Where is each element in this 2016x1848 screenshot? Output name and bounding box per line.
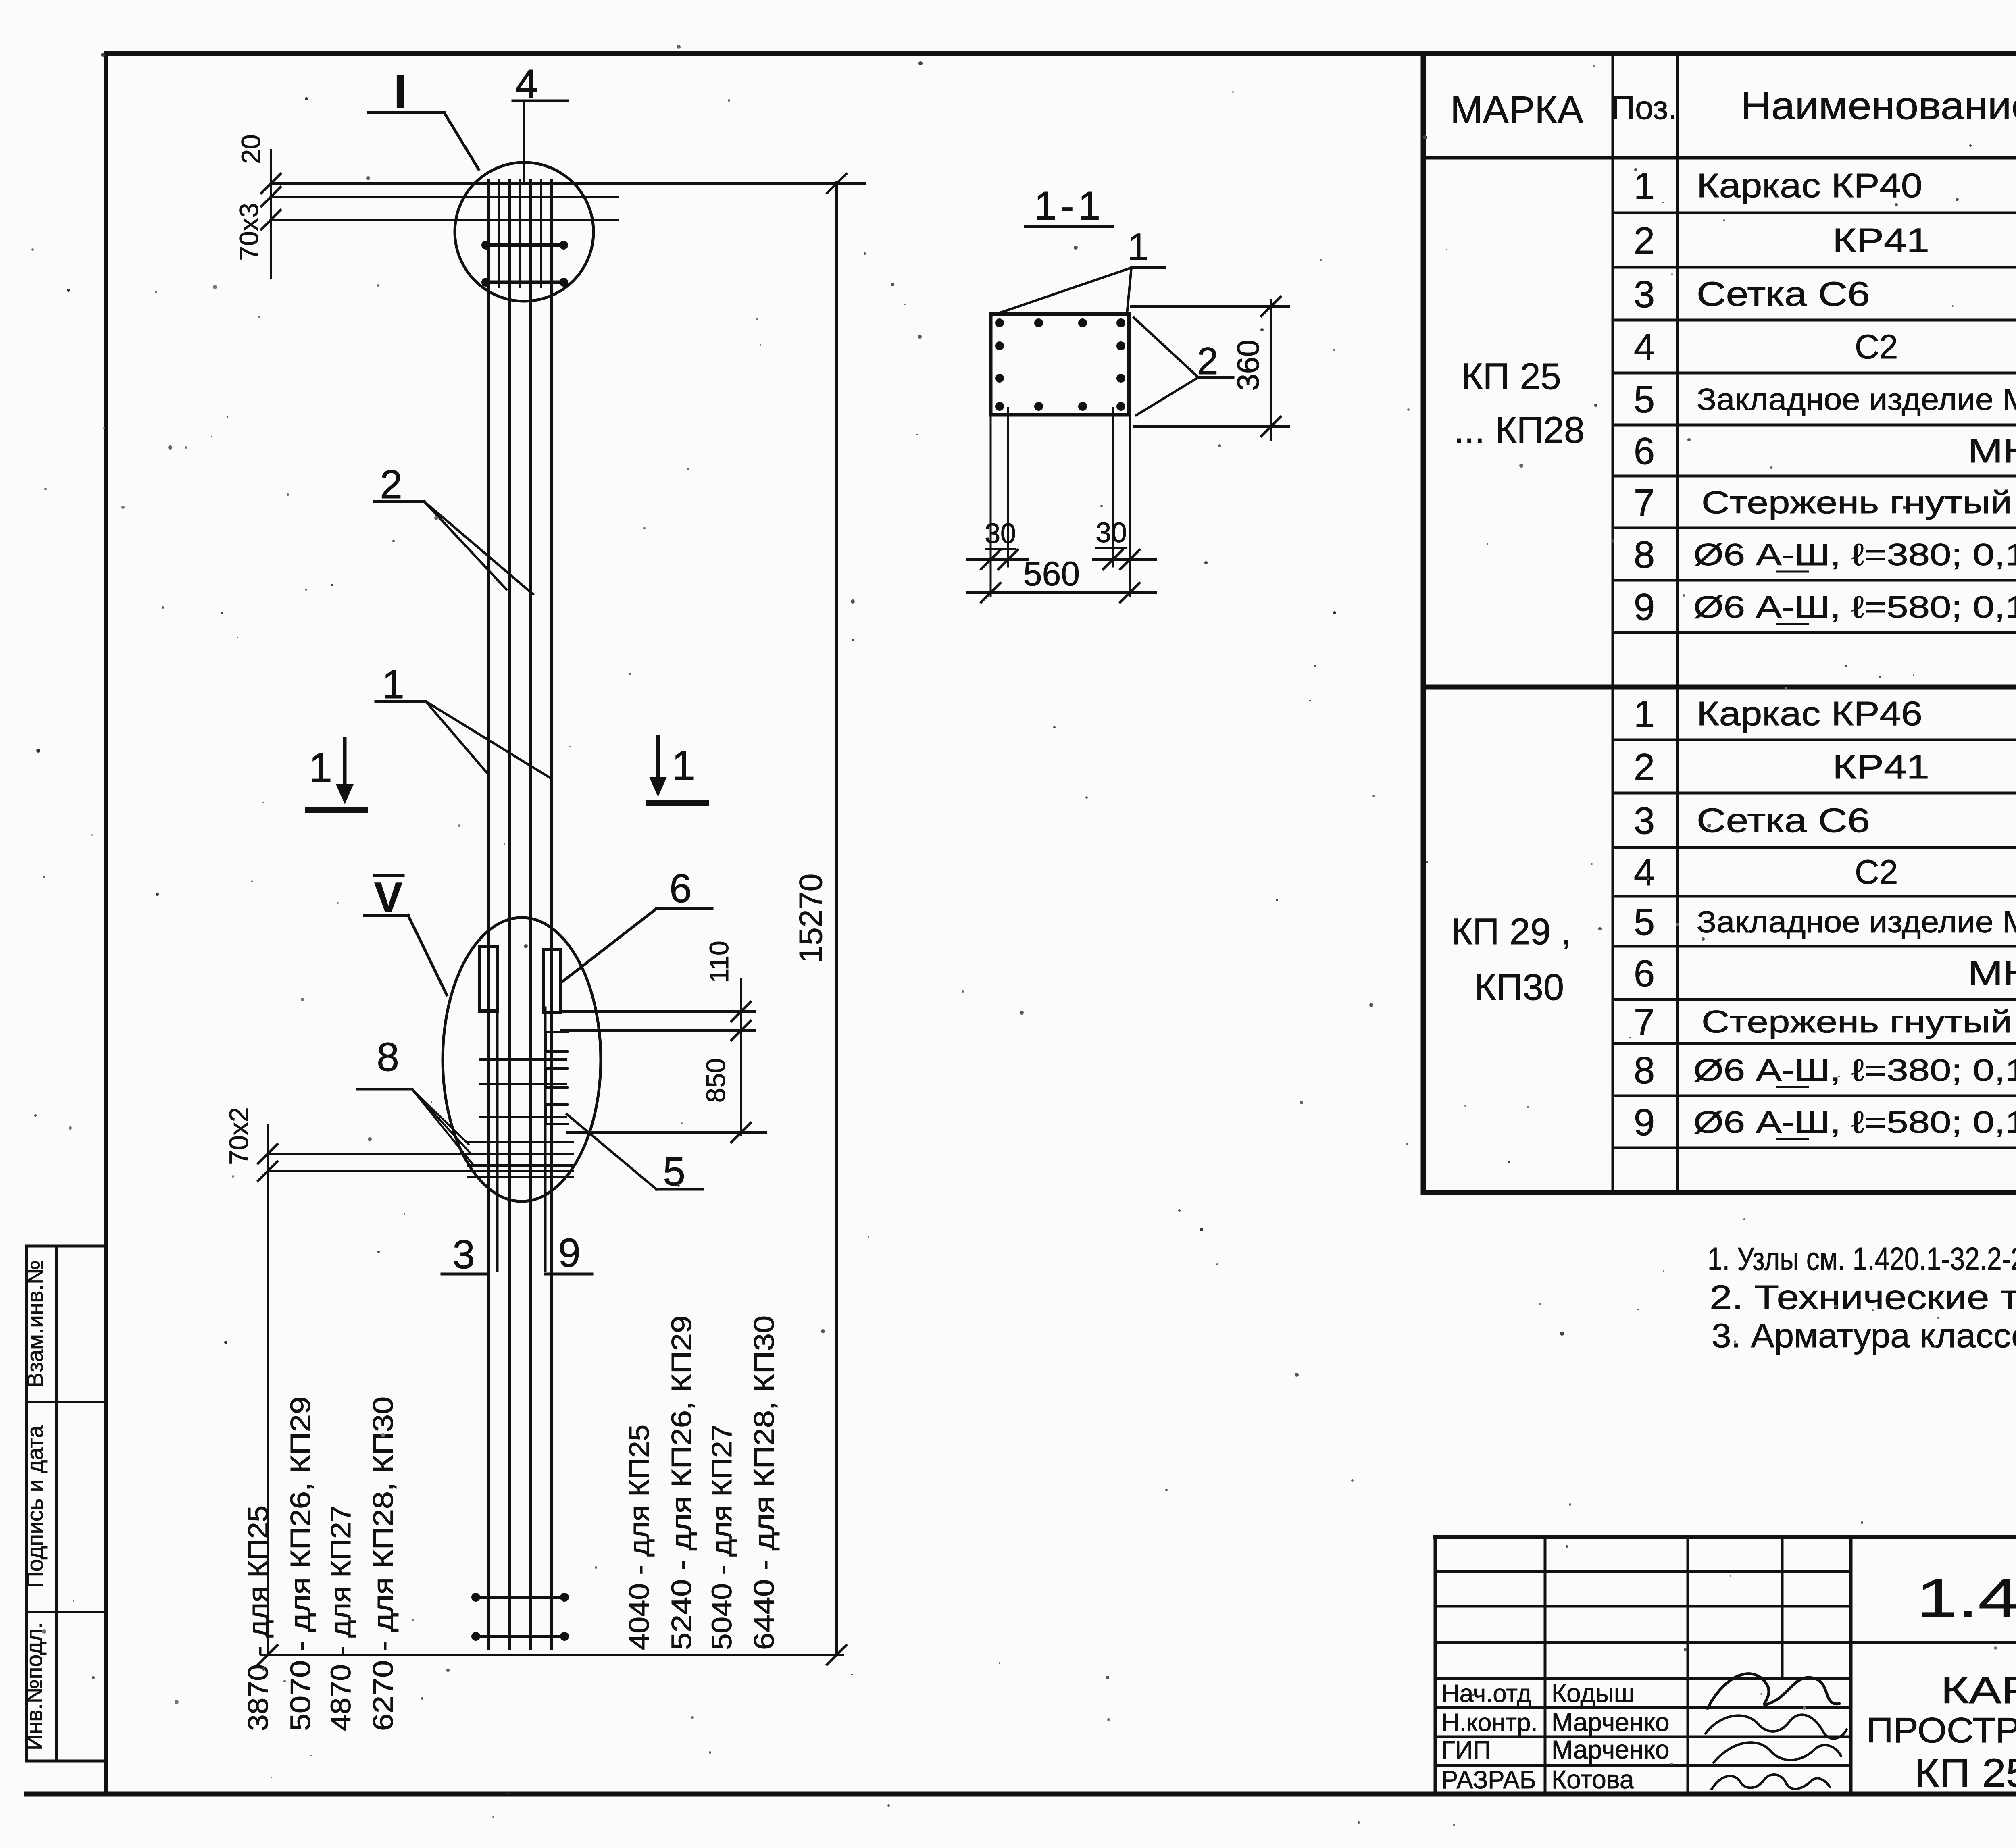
svg-text:... КП28: ... КП28 — [1454, 410, 1585, 451]
svg-text:5: 5 — [1634, 378, 1655, 420]
svg-text:Ø6 А-Ш, ℓ=380; 0,1 кг: Ø6 А-Ш, ℓ=380; 0,1 кг — [1693, 538, 2016, 572]
svg-text:5070 - для КП26, КП29: 5070 - для КП26, КП29 — [285, 1396, 316, 1731]
svg-text:6270 - для КП28, КП30: 6270 - для КП28, КП30 — [367, 1396, 399, 1731]
svg-text:ПРОСТРАНСТВЕННЫЙ: ПРОСТРАНСТВЕННЫЙ — [1866, 1710, 2016, 1750]
svg-text:360: 360 — [1231, 340, 1266, 391]
svg-text:5240 - для КП26, КП29: 5240 - для КП26, КП29 — [666, 1315, 697, 1650]
svg-text:Нач.отд: Нач.отд — [1441, 1680, 1531, 1708]
svg-text:9: 9 — [1634, 586, 1655, 628]
svg-text:Сетка С6: Сетка С6 — [1697, 801, 1870, 839]
svg-text:Стержень гнутый: Стержень гнутый — [1702, 1004, 2012, 1039]
svg-text:Марченко: Марченко — [1552, 1735, 1669, 1764]
svg-text:МН32: МН32 — [1968, 432, 2016, 470]
svg-text:КАРКАС: КАРКАС — [1941, 1669, 2016, 1712]
svg-text:Инв.№подл.: Инв.№подл. — [21, 1622, 47, 1750]
svg-text:30: 30 — [985, 518, 1016, 549]
svg-text:Н.контр.: Н.контр. — [1441, 1709, 1538, 1737]
svg-text:Ø6 А-Ш, ℓ=580; 0,1 кг: Ø6 А-Ш, ℓ=580; 0,1 кг — [1693, 1105, 2016, 1140]
svg-text:4: 4 — [1634, 851, 1655, 893]
svg-text:20: 20 — [236, 134, 266, 164]
svg-text:3: 3 — [1634, 273, 1655, 315]
svg-text:Стержень гнутый: Стержень гнутый — [1702, 485, 2012, 520]
svg-text:9: 9 — [558, 1230, 581, 1276]
svg-text:Закладное изделие МН7: Закладное изделие МН7 — [1697, 383, 2016, 417]
svg-text:КР41: КР41 — [1833, 221, 1929, 259]
svg-text:Марченко: Марченко — [1552, 1708, 1669, 1737]
svg-text:КР41: КР41 — [1833, 748, 1929, 786]
svg-text:3: 3 — [452, 1232, 475, 1277]
svg-text:15270: 15270 — [793, 874, 829, 963]
svg-text:110: 110 — [704, 941, 734, 983]
svg-text:6: 6 — [669, 866, 692, 911]
svg-text:2: 2 — [1634, 219, 1655, 262]
svg-text:ГИП: ГИП — [1441, 1736, 1491, 1764]
svg-text:3870 - для КП25: 3870 - для КП25 — [242, 1505, 274, 1731]
svg-text:7: 7 — [1634, 481, 1655, 524]
svg-text:Закладное изделие МН7: Закладное изделие МН7 — [1697, 905, 2016, 939]
svg-text:Котова: Котова — [1552, 1765, 1634, 1794]
svg-text:Ø6 А-Ш, ℓ=380; 0,1 кг: Ø6 А-Ш, ℓ=380; 0,1 кг — [1693, 1053, 2016, 1088]
svg-text:Сетка С6: Сетка С6 — [1697, 275, 1870, 313]
svg-text:Каркас КР46: Каркас КР46 — [1697, 695, 1922, 733]
svg-text:6: 6 — [1634, 430, 1655, 472]
svg-text:1. Узлы см. 1.420.1-32.2-2У: 1. Узлы см. 1.420.1-32.2-2У — [1708, 1241, 2016, 1277]
svg-text:Каркас КР40: Каркас КР40 — [1697, 166, 1922, 204]
svg-text:6440 - для КП28, КП30: 6440 - для КП28, КП30 — [748, 1315, 780, 1650]
svg-text:1: 1 — [1127, 226, 1149, 268]
svg-text:Взам.инв.№: Взам.инв.№ — [22, 1260, 48, 1388]
svg-text:70x3: 70x3 — [234, 203, 264, 260]
svg-text:1.420.1-32.2-2 – 08: 1.420.1-32.2-2 – 08 — [1916, 1567, 2016, 1628]
svg-text:МН32: МН32 — [1968, 954, 2016, 992]
svg-text:КП30: КП30 — [1475, 967, 1564, 1008]
svg-text:2: 2 — [1634, 746, 1655, 788]
svg-text:РАЗРАБ: РАЗРАБ — [1441, 1766, 1536, 1794]
svg-text:С2: С2 — [1855, 328, 1898, 366]
svg-text:КП 25: КП 25 — [1461, 356, 1561, 397]
svg-text:1-1: 1-1 — [1034, 183, 1105, 229]
svg-text:Подпись и дата: Подпись и дата — [22, 1425, 48, 1588]
svg-text:8: 8 — [1634, 1049, 1655, 1091]
svg-text:9: 9 — [1634, 1101, 1655, 1143]
svg-text:Поз.: Поз. — [1611, 89, 1677, 126]
svg-text:Наименование: Наименование — [1741, 84, 2016, 127]
svg-text:4040 - для КП25: 4040 - для КП25 — [623, 1424, 655, 1650]
svg-text:7: 7 — [1634, 1001, 1655, 1043]
svg-text:3: 3 — [1634, 799, 1655, 842]
svg-text:1: 1 — [309, 744, 332, 791]
svg-text:С2: С2 — [1855, 853, 1898, 891]
svg-text:8: 8 — [1634, 533, 1655, 576]
svg-text:Кодыш: Кодыш — [1552, 1679, 1635, 1708]
svg-text:Ø6 А-Ш, ℓ=580; 0,1 кг: Ø6 А-Ш, ℓ=580; 0,1 кг — [1693, 590, 2016, 624]
svg-text:6: 6 — [1634, 952, 1655, 995]
svg-text:70x2: 70x2 — [224, 1107, 254, 1165]
svg-text:КП 29 ,: КП 29 , — [1451, 911, 1572, 952]
svg-text:3. Арматура классов А-Ш, А-I: 3. Арматура классов А-Ш, А-I по ГОСТ5781… — [1712, 1317, 2016, 1355]
svg-text:1: 1 — [1634, 693, 1655, 735]
svg-text:850: 850 — [701, 1058, 731, 1103]
svg-text:5: 5 — [1634, 901, 1655, 943]
svg-text:5: 5 — [663, 1149, 685, 1194]
svg-text:2. Технические требования см.: 2. Технические требования см. 1.420.1-32… — [1710, 1278, 2016, 1316]
svg-text:30: 30 — [1095, 517, 1127, 548]
svg-text:I: I — [394, 65, 407, 119]
svg-text:КП 25... КП 30: КП 25... КП 30 — [1914, 1750, 2016, 1796]
svg-text:5040 - для КП27: 5040 - для КП27 — [706, 1424, 737, 1650]
svg-text:МАРКА: МАРКА — [1450, 88, 1583, 131]
svg-text:1: 1 — [672, 742, 695, 789]
svg-text:4870 - для КП27: 4870 - для КП27 — [325, 1505, 356, 1731]
svg-text:560: 560 — [1023, 555, 1080, 593]
svg-text:4: 4 — [1634, 326, 1655, 368]
svg-text:8: 8 — [377, 1034, 399, 1080]
